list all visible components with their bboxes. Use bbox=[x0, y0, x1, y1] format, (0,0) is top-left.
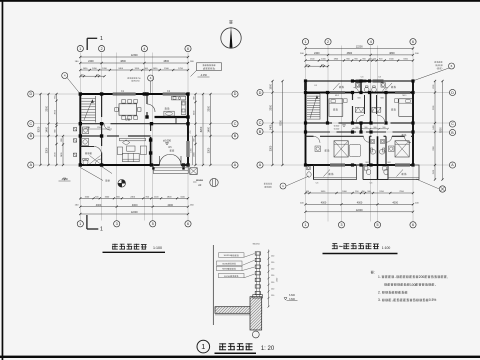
right plan column blocks bbox=[304, 79, 415, 166]
left plan axis bubble 4 top bbox=[141, 46, 147, 52]
left plan bottom dimension subdivisions bbox=[79, 196, 189, 199]
left plan column blocks bbox=[79, 92, 190, 166]
svg-text:8200: 8200 bbox=[200, 126, 203, 132]
left plan top wall between windows bbox=[136, 93, 163, 95]
right plan corridor dim 900x4 bbox=[352, 127, 389, 130]
left plan interior wall B bbox=[80, 135, 150, 137]
section mark 1 bottom bbox=[87, 215, 103, 233]
left plan kitchen bottom wall thick bbox=[155, 116, 189, 118]
svg-text:1: 1 bbox=[79, 222, 81, 226]
svg-text:C: C bbox=[29, 122, 32, 126]
window bottom left unit bbox=[330, 164, 345, 166]
right plan axis bubble 6 top bbox=[410, 39, 416, 45]
left plan axis bubble D right bbox=[232, 91, 238, 97]
left plan bottom dimension row 4000s bbox=[79, 204, 189, 208]
bathroom label bbox=[85, 152, 87, 154]
svg-text:3300: 3300 bbox=[270, 145, 273, 151]
left plan right wall upper bbox=[187, 94, 189, 141]
right plan bed top-right bedroom bbox=[395, 99, 413, 117]
right plan lower-right callout bubble bbox=[416, 179, 446, 192]
left plan title bbox=[103, 244, 166, 253]
svg-text:2: 2 bbox=[101, 47, 103, 51]
right plan party wall center bbox=[360, 81, 362, 93]
balcony detail wall line bbox=[212, 245, 214, 325]
svg-text:4: 4 bbox=[143, 47, 145, 51]
right plan top bathrooms fixtures bbox=[355, 83, 385, 92]
svg-text:3.: 3. bbox=[378, 298, 381, 302]
svg-text:5: 5 bbox=[377, 223, 379, 227]
svg-text:6: 6 bbox=[412, 223, 414, 227]
right plan left balcony railing callout bbox=[264, 176, 309, 189]
svg-text:9200: 9200 bbox=[280, 120, 283, 126]
svg-text:100: 100 bbox=[306, 64, 309, 66]
balcony detail caption bbox=[197, 340, 275, 353]
bathroom shower diagonals bbox=[90, 156, 102, 166]
right plan top dimension row bbox=[304, 52, 414, 56]
left plan drain pipe boxes bbox=[73, 128, 76, 157]
right plan overall left dimension 9200 bbox=[280, 80, 284, 166]
left plan level -0.450 bottom left bbox=[59, 178, 71, 181]
left plan level -0.450 top right bbox=[198, 74, 210, 77]
svg-text:3: 3 bbox=[341, 223, 343, 227]
right plan corridor level texts bbox=[334, 125, 346, 131]
living room sofa bbox=[123, 153, 140, 161]
left plan interior vertical wall axis 2 bbox=[101, 94, 103, 165]
right plan overall top dimension 12200 bbox=[304, 46, 414, 50]
svg-text:3300: 3300 bbox=[270, 104, 273, 110]
svg-text:4000: 4000 bbox=[357, 201, 363, 204]
right plan bottom dimension subdivisions bbox=[304, 191, 414, 194]
svg-text:900: 900 bbox=[61, 139, 63, 142]
right plan left wall bbox=[305, 81, 307, 165]
svg-text:D: D bbox=[234, 92, 237, 96]
svg-text:5.000: 5.000 bbox=[334, 128, 340, 130]
svg-text:D: D bbox=[451, 91, 454, 95]
left plan axis bubble B left bbox=[28, 133, 34, 139]
svg-text:2400: 2400 bbox=[88, 60, 94, 63]
svg-text:1: 1 bbox=[79, 47, 81, 51]
svg-text:6: 6 bbox=[412, 40, 414, 44]
svg-text:4800: 4800 bbox=[347, 52, 353, 55]
left plan axis bubble 1 bottom bbox=[77, 221, 83, 227]
svg-text:2.: 2. bbox=[378, 291, 381, 295]
window ML1 right unit bbox=[395, 91, 410, 93]
kitchen door arc bbox=[147, 104, 155, 112]
right plan balcony labels with slashes bbox=[333, 83, 396, 90]
left plan left wall bbox=[79, 94, 81, 165]
left plan apron drain leader lines bbox=[80, 167, 112, 182]
svg-text:12300: 12300 bbox=[131, 54, 139, 57]
svg-text:-0.450: -0.450 bbox=[200, 74, 207, 77]
right plan left dimension row bbox=[270, 80, 274, 166]
left plan axis bubble 2 top bbox=[99, 46, 105, 52]
right plan top dimension subdivisions bbox=[304, 59, 414, 62]
svg-text:4800: 4800 bbox=[389, 52, 395, 55]
right plan overall right dimension 9200 bbox=[440, 80, 444, 181]
kitchen label bbox=[165, 107, 167, 109]
svg-text:6: 6 bbox=[187, 222, 189, 226]
svg-text:1400: 1400 bbox=[208, 126, 211, 132]
left plan top small dimension ticks bbox=[79, 74, 105, 77]
left plan top dimension row 2400/4800/4800 bbox=[79, 60, 189, 64]
right plan wall B corridor bbox=[306, 131, 414, 133]
left plan kitchen left wall bbox=[146, 94, 148, 117]
svg-text:1: 1 bbox=[100, 227, 103, 233]
kitchen counter right bbox=[181, 101, 186, 115]
left plan axis bubble C right bbox=[232, 121, 238, 127]
svg-text:200: 200 bbox=[419, 275, 425, 279]
right plan lower center bathroom fixtures bbox=[366, 140, 392, 164]
svg-text:5: 5 bbox=[152, 222, 154, 226]
svg-text:100: 100 bbox=[96, 74, 99, 76]
svg-text:4800: 4800 bbox=[120, 60, 126, 63]
left plan top wall D bbox=[80, 93, 112, 95]
right plan overall bottom dimension 12200 bbox=[304, 209, 414, 213]
bathroom door arc bbox=[94, 147, 102, 155]
svg-text:W0250: W0250 bbox=[133, 81, 140, 83]
svg-text:100: 100 bbox=[321, 64, 324, 66]
svg-text:1: 20: 1: 20 bbox=[261, 346, 275, 352]
right plan bedroom north wall bbox=[306, 136, 414, 143]
svg-text:4800: 4800 bbox=[163, 60, 169, 63]
left plan overall top dimension 12300 bbox=[79, 54, 189, 58]
window C3 left unit bbox=[356, 80, 367, 82]
right plan axis bubble A right bbox=[449, 162, 455, 168]
right plan bottom balcony left bbox=[314, 165, 357, 184]
hall level mark +0.000 bbox=[163, 139, 171, 146]
left plan left dimension subdivisions bbox=[55, 93, 58, 166]
right plan wall D bbox=[306, 91, 414, 93]
svg-text:1: 1 bbox=[305, 40, 307, 44]
right plan bottom corner bathroom bbox=[307, 165, 314, 180]
right plan wall C bbox=[306, 122, 414, 124]
window C2 left plan bbox=[163, 93, 186, 95]
left plan right wall lower bbox=[187, 157, 189, 165]
right plan title bbox=[323, 242, 398, 254]
north arrow compass bbox=[221, 21, 241, 48]
left plan axis bubble A left bbox=[28, 162, 34, 168]
left plan top wall right end bbox=[186, 93, 188, 95]
right plan staircase bbox=[307, 94, 320, 120]
svg-text:1: 1 bbox=[100, 36, 103, 42]
svg-text:3.600: 3.600 bbox=[289, 298, 296, 301]
svg-text:1: 1 bbox=[201, 342, 205, 351]
right plan bed bottom-right bedroom bbox=[389, 141, 410, 157]
living room TV cabinet bbox=[120, 138, 146, 141]
notes block bbox=[371, 270, 448, 302]
svg-text:1400: 1400 bbox=[270, 124, 273, 130]
right plan bottom wall A bbox=[306, 164, 414, 166]
svg-text:±0.000: ±0.000 bbox=[163, 139, 171, 143]
window bottom right unit bbox=[395, 164, 410, 166]
left plan porch corner X square bbox=[190, 168, 197, 175]
svg-text:900: 900 bbox=[383, 127, 386, 129]
left plan overall left dimension 8200 bbox=[38, 93, 42, 166]
door labels W4 ML1 bbox=[335, 95, 407, 99]
right plan axis bubble 5 bottom bbox=[374, 222, 380, 228]
svg-text:W0280: W0280 bbox=[196, 180, 204, 182]
svg-text:1.: 1. bbox=[378, 275, 381, 279]
bedroom labels bottom bbox=[325, 149, 327, 151]
left plan porch steps bbox=[152, 165, 188, 173]
right plan axis bubble A left bbox=[257, 162, 263, 168]
window C3 left plan right wall bbox=[187, 141, 189, 157]
balcony detail leader labels bbox=[217, 253, 255, 278]
right plan wardrobes bbox=[355, 107, 381, 112]
right plan axis bubble D left bbox=[257, 89, 263, 95]
right plan top-right drain callout bbox=[414, 61, 455, 80]
left plan top-left callout bubble bbox=[62, 73, 81, 95]
left plan axis bubble B right bbox=[232, 133, 238, 139]
svg-text:1:100: 1:100 bbox=[382, 246, 391, 250]
svg-text:1500: 1500 bbox=[270, 83, 273, 89]
left plan axis grid lines bbox=[35, 53, 232, 221]
svg-text:C: C bbox=[259, 121, 262, 125]
frame left border bbox=[2, 0, 4, 360]
living room armchair right bbox=[140, 146, 146, 154]
svg-text::: : bbox=[374, 270, 375, 274]
svg-text:2: 2 bbox=[327, 40, 329, 44]
svg-text:100: 100 bbox=[81, 74, 84, 76]
svg-text:3300: 3300 bbox=[208, 105, 211, 111]
balcony detail parapet column hatched bbox=[215, 295, 262, 330]
svg-text:3: 3 bbox=[116, 222, 118, 226]
right plan top balcony outer wall bbox=[306, 80, 414, 82]
bathroom washbasin bbox=[82, 138, 89, 145]
right plan axis bubble D right bbox=[449, 89, 455, 95]
right plan bottom dimension row 4000s bbox=[304, 201, 414, 205]
right plan axis bubble 3 bottom bbox=[338, 222, 344, 228]
left plan axis bubble 6 bottom bbox=[185, 221, 191, 227]
svg-text:6.600: 6.600 bbox=[334, 125, 340, 127]
window C1 left plan bbox=[113, 93, 136, 95]
porch depth dimension 1300 bbox=[191, 136, 193, 165]
window C3 right unit bbox=[373, 80, 384, 82]
svg-text:,: , bbox=[447, 275, 448, 279]
svg-text:8200: 8200 bbox=[38, 126, 41, 132]
svg-text:C: C bbox=[451, 122, 454, 126]
left plan axis bubble 6 top bbox=[185, 46, 191, 52]
svg-text:1: 1 bbox=[305, 223, 307, 227]
window C4 lines bbox=[304, 83, 306, 90]
right plan bottom center bathrooms bbox=[363, 165, 388, 184]
svg-text:3300: 3300 bbox=[208, 147, 211, 153]
svg-text:4: 4 bbox=[370, 40, 372, 44]
left plan overall bottom dimension 12200 bbox=[79, 211, 189, 215]
left plan overall right dimension 8200 bbox=[200, 93, 204, 166]
right plan interior vertical walls bbox=[328, 93, 387, 166]
left plan interior wall C bbox=[80, 124, 188, 131]
svg-text:1100: 1100 bbox=[86, 127, 90, 129]
right plan axis bubble 2 top bbox=[325, 39, 331, 45]
left plan axis bubble C left bbox=[28, 121, 34, 127]
right plan axis bubble C right bbox=[449, 121, 455, 127]
left plan top callout bubble near axis 4 bbox=[148, 75, 154, 94]
living room plant rhombus bbox=[123, 140, 130, 145]
dining table with chairs bbox=[115, 100, 141, 120]
svg-text:80X80: 80X80 bbox=[222, 263, 229, 265]
svg-text:900: 900 bbox=[356, 127, 359, 129]
right plan axis bubble B right bbox=[449, 129, 455, 135]
balcony detail railing bars bbox=[255, 252, 260, 297]
svg-text:D: D bbox=[29, 92, 32, 96]
svg-text:4000: 4000 bbox=[96, 204, 102, 207]
right plan axis bubble 1 bottom bbox=[302, 222, 308, 228]
left plan left dimension row bbox=[46, 93, 50, 166]
svg-text:100: 100 bbox=[107, 127, 110, 129]
left plan right dimension row bbox=[208, 93, 212, 166]
svg-text:6.600: 6.600 bbox=[289, 294, 296, 297]
right plan right wall bbox=[412, 81, 414, 165]
svg-text:1400: 1400 bbox=[46, 126, 49, 132]
svg-text:2400: 2400 bbox=[314, 52, 320, 55]
balcony detail level marks 6.600 3.600 bbox=[284, 294, 298, 301]
svg-text:3300: 3300 bbox=[46, 147, 49, 153]
left plan laundry room washtrough bbox=[83, 127, 89, 134]
balcony detail floor slab hatched bbox=[215, 307, 262, 314]
svg-text:12200: 12200 bbox=[356, 209, 364, 212]
svg-text:3300: 3300 bbox=[46, 105, 49, 111]
left plan right dimension subdivisions bbox=[194, 93, 197, 166]
left plan interior dim 1100/1200/100 bbox=[82, 127, 112, 129]
hall entrance double door arcs bbox=[160, 154, 182, 165]
left plan axis bubble 1 top bbox=[77, 46, 83, 52]
balcony detail dimension chain 150s bbox=[267, 250, 278, 308]
window ML1 left unit bbox=[330, 91, 345, 93]
svg-text:4000: 4000 bbox=[392, 201, 398, 204]
svg-text:1:100: 1:100 bbox=[153, 246, 162, 250]
svg-text:4000: 4000 bbox=[132, 204, 138, 207]
svg-text:4000: 4000 bbox=[168, 204, 174, 207]
left plan left extra dims bbox=[61, 135, 64, 166]
right plan bed bottom-left bedroom bbox=[315, 141, 361, 157]
bedroom labels top bbox=[333, 108, 335, 110]
balcony detail drip circle bbox=[252, 331, 259, 338]
svg-text:50X100: 50X100 bbox=[224, 276, 232, 278]
left plan interior wall bathroom bbox=[80, 146, 94, 148]
svg-text:900: 900 bbox=[365, 127, 368, 129]
svg-text:6: 6 bbox=[187, 47, 189, 51]
right plan axis bubble 4 top bbox=[368, 39, 374, 45]
left plan axis bubble 3 bottom bbox=[114, 221, 120, 227]
right plan right dimension subdivisions bbox=[433, 80, 436, 181]
left plan top dimension row subdivisions bbox=[79, 68, 189, 71]
left plan gas heater note bbox=[128, 76, 130, 78]
left plan axis bubble 5 bottom bbox=[150, 221, 156, 227]
right plan bed top-left bedroom bbox=[329, 99, 347, 117]
right plan center door arcs to corridor bbox=[354, 88, 388, 124]
right plan top small ticks bbox=[304, 64, 329, 67]
left plan drain well symbol bbox=[118, 180, 126, 188]
living room armchair left bbox=[117, 147, 122, 154]
right plan axis grid lines bbox=[264, 46, 450, 222]
left plan bottom wall A entrance piers bbox=[154, 164, 160, 166]
section mark 1 top bbox=[87, 36, 103, 50]
svg-text:D: D bbox=[259, 91, 262, 95]
svg-text:12200: 12200 bbox=[131, 211, 139, 214]
svg-text:100: 100 bbox=[410, 283, 416, 287]
right plan bottom balcony right bbox=[388, 165, 419, 180]
frame top border bbox=[0, 0, 480, 2]
left plan right-bottom callout WX280 bbox=[193, 178, 218, 187]
right plan axis bubble 1 top bbox=[302, 39, 308, 45]
left plan staircase bbox=[81, 96, 95, 123]
svg-text:9200: 9200 bbox=[440, 127, 443, 133]
frame bottom border bbox=[0, 356, 480, 358]
left plan bottom wall A west part bbox=[80, 164, 154, 166]
left plan construction hole callout box bbox=[191, 63, 222, 77]
svg-text:~: ~ bbox=[339, 242, 344, 251]
left plan hall left wall bbox=[150, 124, 152, 165]
hall label bbox=[170, 149, 172, 151]
dining room label bbox=[125, 118, 127, 120]
svg-text:4000: 4000 bbox=[321, 201, 327, 204]
svg-text:Φ6@50: Φ6@50 bbox=[252, 243, 260, 246]
svg-text:2400: 2400 bbox=[61, 153, 63, 157]
left plan laundry divider bbox=[175, 117, 177, 124]
left plan axis bubble A right bbox=[232, 162, 238, 168]
bathroom toilet bbox=[83, 158, 88, 165]
right plan axis bubble B left bbox=[257, 128, 263, 134]
svg-text:1200: 1200 bbox=[97, 127, 101, 129]
kitchen counter top bbox=[172, 96, 186, 100]
right plan axis bubble C left bbox=[257, 119, 263, 125]
living room coffee table bbox=[127, 146, 135, 151]
svg-text:12200: 12200 bbox=[356, 46, 364, 49]
svg-text:0.5%: 0.5% bbox=[429, 298, 437, 302]
left plan axis bubble D left bbox=[28, 91, 34, 97]
svg-text:C: C bbox=[234, 122, 237, 126]
laundry basin bbox=[164, 111, 174, 116]
svg-text:900: 900 bbox=[374, 127, 377, 129]
right plan axis bubble 6 bottom bbox=[410, 222, 416, 228]
